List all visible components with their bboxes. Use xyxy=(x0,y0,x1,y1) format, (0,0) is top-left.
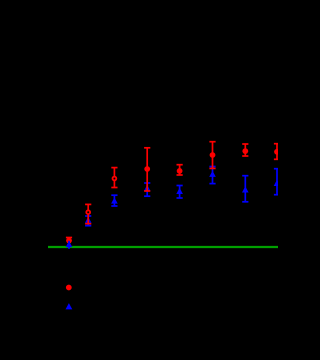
blue point 2 errorbar xyxy=(85,216,91,226)
red point 6 errorbar xyxy=(209,142,215,169)
red point 1 marker xyxy=(66,238,72,244)
red point 4 errorbar xyxy=(144,148,150,191)
red point 2 errorbar xyxy=(85,204,91,223)
blue point 4 marker xyxy=(144,185,151,191)
red point 1 errorbar xyxy=(66,238,72,244)
red point 3 marker (open circle) xyxy=(113,177,117,181)
blue point 8 marker xyxy=(274,180,281,186)
blue point 8 errorbar xyxy=(274,169,280,195)
blue point 6 errorbar xyxy=(209,167,215,184)
blue point 7 errorbar xyxy=(242,176,248,202)
blue point 6 marker xyxy=(209,171,216,177)
red point 7 marker xyxy=(242,148,248,154)
red point 5 marker xyxy=(177,168,183,174)
blue point 7 marker xyxy=(242,186,249,192)
red point 6 marker xyxy=(210,152,216,158)
red point 8 errorbar xyxy=(274,144,280,160)
red point 4 marker xyxy=(144,166,150,172)
red point 8 marker xyxy=(274,149,280,155)
blue point 1 marker xyxy=(66,241,73,247)
legend blue triangle marker xyxy=(66,303,73,309)
blue point 3 errorbar xyxy=(111,195,117,206)
red point 3 errorbar xyxy=(111,168,117,188)
red point 2 marker (open circle) xyxy=(86,210,90,214)
legend red circle marker xyxy=(66,285,72,291)
red point 5 errorbar xyxy=(177,165,183,175)
red point 7 errorbar xyxy=(242,144,248,156)
green baseline xyxy=(48,246,278,248)
blue point 2 marker xyxy=(85,217,92,223)
blue point 4 errorbar xyxy=(144,183,150,196)
blue point 5 errorbar xyxy=(177,186,183,199)
blue point 1 errorbar xyxy=(68,241,70,249)
blue point 3 marker xyxy=(111,197,118,203)
blue point 5 marker xyxy=(176,188,183,194)
